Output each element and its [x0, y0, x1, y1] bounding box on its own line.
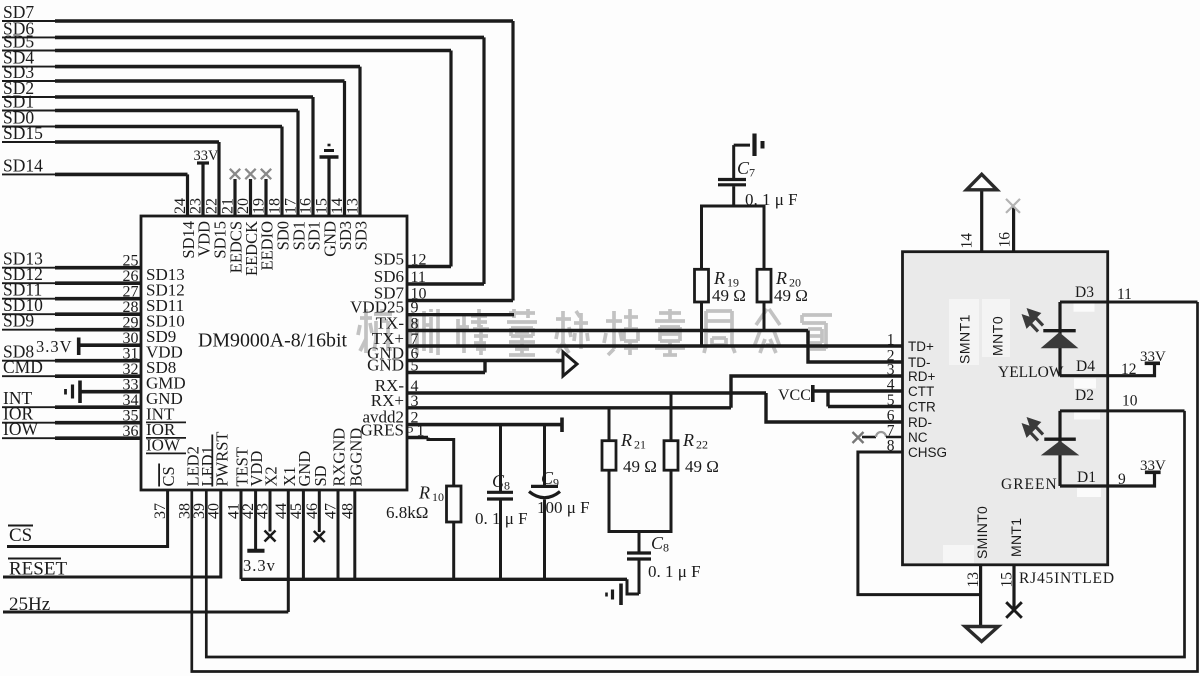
wire D3 row to pin11 [1060, 301, 1198, 304]
pin7 TX+ wire [407, 344, 903, 347]
wire R21-R22 bottom join [609, 470, 671, 531]
svg-text:SD5: SD5 [374, 250, 404, 269]
svg-text:IOW: IOW [3, 419, 38, 439]
svg-text:16: 16 [997, 232, 1014, 248]
pin13 ground arrow [979, 565, 982, 626]
svg-text:R: R [775, 268, 787, 288]
svg-text:36: 36 [123, 423, 139, 440]
wire SD0 horizontal [2, 126, 57, 128]
pin45 GND wire [302, 490, 305, 579]
wire gnd pin5 jog [483, 361, 486, 373]
pin16 no-connect [1012, 207, 1015, 252]
wire ground bus [241, 578, 627, 581]
svg-text:D3: D3 [1075, 284, 1094, 301]
svg-text:RD+: RD+ [908, 369, 935, 384]
resistor R21 [602, 441, 616, 471]
pin46 SD no-connect [318, 490, 321, 532]
white patch under D2 [1074, 411, 1100, 420]
wire SD2 drop to IC top pin [311, 97, 314, 217]
svg-text:BGGND: BGGND [346, 428, 365, 487]
svg-text:R: R [418, 483, 430, 503]
ground symbol right of C7 [734, 144, 750, 147]
svg-text:10: 10 [432, 490, 444, 504]
pin10 SD7 wire [407, 299, 513, 302]
pin1 GRES wire [407, 436, 428, 439]
wire RX- jog to RD- [766, 393, 903, 422]
svg-text:CTT: CTT [908, 384, 934, 399]
svg-text:26: 26 [123, 268, 139, 285]
pin25 SD13 wire [2, 267, 57, 269]
gnd arrow terminal (pins 5,6) [563, 352, 577, 376]
wire GRES to R10 [428, 438, 454, 487]
svg-text:33V: 33V [1140, 349, 1166, 365]
wire D1 row to 33V [1060, 473, 1155, 486]
svg-text:3: 3 [411, 393, 419, 410]
svg-text:35: 35 [123, 408, 139, 425]
no-connect X on pin19 [264, 179, 267, 217]
wire R19-R20 top join [702, 206, 765, 269]
RJ45 label SMNT1 bg [949, 299, 979, 365]
pin34 INT wire [2, 406, 57, 408]
pin41 TEST wire to ground bus [240, 490, 243, 579]
wire SD5 horizontal [2, 50, 57, 52]
capacitor C7 [732, 145, 735, 178]
wire VCC to CTT [813, 389, 903, 392]
pin31 SD8 wire [2, 360, 57, 362]
wire SD4 drop to IC top pin [358, 67, 361, 217]
svg-text:IOW: IOW [146, 436, 181, 455]
svg-text:9: 9 [411, 300, 419, 317]
svg-text:1: 1 [887, 332, 895, 349]
svg-text:5: 5 [887, 392, 895, 409]
pin48 BGGND wire [353, 490, 356, 579]
watermark text band [358, 309, 832, 355]
svg-text:16: 16 [298, 198, 315, 214]
svg-text:R: R [620, 430, 632, 450]
pin35 IOR wire [2, 422, 57, 424]
svg-text:RJ45INTLED: RJ45INTLED [1019, 570, 1115, 587]
svg-text:SD9: SD9 [3, 311, 34, 331]
svg-text:RD-: RD- [908, 415, 932, 430]
capacitor C8 (ac couple) [638, 532, 641, 552]
wire SD5 vertical to pin12 [449, 51, 452, 267]
svg-text:D2: D2 [1075, 387, 1094, 404]
pin40 PWRST wire [3, 490, 221, 577]
svg-text:28: 28 [123, 299, 139, 316]
svg-text:6.8kΩ: 6.8kΩ [386, 503, 428, 522]
svg-text:D1: D1 [1077, 469, 1096, 486]
wire R19 bottom to TX+ [700, 302, 703, 346]
svg-text:49 Ω: 49 Ω [712, 286, 746, 305]
svg-text:5: 5 [411, 358, 419, 375]
svg-text:0. 1 μ F: 0. 1 μ F [648, 562, 701, 581]
svg-text:CTR: CTR [908, 400, 936, 415]
svg-text:PWRST: PWRST [212, 431, 231, 486]
ground symbol above pin15 [327, 159, 330, 218]
svg-text:SD3: SD3 [352, 221, 371, 250]
wire R22 top [670, 393, 673, 441]
wire SD6 vertical to pin11 [482, 37, 485, 284]
svg-text:11: 11 [1117, 286, 1132, 303]
IC U1 DM9000A box [141, 216, 407, 490]
wire SD4 horizontal [2, 66, 57, 68]
resistor R19 [695, 269, 709, 302]
wire SD1 horizontal [2, 110, 57, 112]
svg-text:CMD: CMD [3, 357, 43, 377]
wire R21 top [608, 408, 611, 441]
svg-text:TD-: TD- [908, 355, 931, 370]
wire CHSG loop to pin13 [858, 452, 981, 595]
svg-text:18: 18 [267, 198, 284, 214]
wire SD3 drop to IC top pin [343, 81, 346, 217]
svg-text:32: 32 [123, 361, 139, 378]
svg-text:SD14: SD14 [3, 155, 43, 175]
svg-text:20: 20 [235, 198, 252, 214]
pin2 avdd2 wire [407, 423, 561, 426]
svg-text:11: 11 [411, 269, 426, 286]
wire D4 row to 33V [1060, 364, 1155, 376]
svg-text:14: 14 [329, 198, 346, 214]
pin32 CMD wire [2, 375, 57, 377]
svg-text:10: 10 [1122, 393, 1138, 410]
resistor R10 [447, 486, 462, 522]
wire R20 bottom to TX- [763, 302, 766, 331]
svg-text:NC: NC [908, 430, 928, 445]
svg-text:33: 33 [123, 377, 139, 394]
power 3.3v symbol at pin42 [247, 549, 264, 553]
svg-text:12: 12 [1121, 361, 1137, 378]
svg-text:30: 30 [123, 330, 139, 347]
wire SD15 horizontal [2, 141, 57, 143]
wire SD7 horizontal [2, 20, 57, 22]
pin39 LED1 wire loop to RJ45 D2 [206, 411, 1184, 657]
svg-text:3.3V: 3.3V [36, 337, 73, 356]
svg-text:23: 23 [188, 198, 205, 214]
svg-text:TD+: TD+ [908, 339, 934, 354]
svg-text:7: 7 [749, 166, 755, 180]
pin4 RX- wire [407, 391, 766, 394]
power 33V symbol (pin12) [1145, 361, 1160, 365]
svg-text:CHSG: CHSG [908, 445, 947, 460]
wire R10 bottom [452, 522, 455, 579]
no-connect X on RJ45 pin7 [862, 436, 876, 439]
svg-text:15: 15 [999, 572, 1016, 588]
svg-text:SD15: SD15 [3, 123, 43, 143]
svg-text:MNT0: MNT0 [990, 316, 1006, 356]
wire SD14 drop to IC top pin [186, 174, 189, 217]
svg-text:34: 34 [123, 392, 139, 409]
wire SD7 vertical to pin10 [511, 21, 514, 301]
svg-text:R: R [713, 268, 725, 288]
pin27 SD11 wire [2, 298, 57, 300]
wire SD14 horizontal [2, 173, 57, 175]
wire CTR jog to VCC [826, 391, 829, 407]
pin26 SD12 wire [2, 282, 57, 284]
svg-text:MNT1: MNT1 [1008, 518, 1024, 557]
svg-text:9: 9 [553, 476, 559, 490]
svg-text:49 Ω: 49 Ω [623, 457, 657, 476]
svg-text:24: 24 [172, 198, 189, 214]
pin3 RX+ wire [407, 406, 731, 409]
capacitor C8 (vdd filter) [499, 425, 502, 491]
LED D2 symbol [1058, 411, 1061, 486]
svg-text:8: 8 [887, 438, 895, 455]
pin38 LED2 wire loop to RJ45 D3 [192, 302, 1198, 672]
LED D3 symbol [1058, 302, 1061, 376]
wire SD1 drop to IC top pin [296, 111, 299, 218]
svg-text:31: 31 [123, 346, 139, 363]
capacitor C9 polarized [543, 425, 546, 485]
svg-text:R: R [682, 430, 694, 450]
svg-text:4: 4 [887, 377, 895, 394]
wire SD15 drop to IC top pin [217, 142, 220, 217]
wire D2 row to pin10 [1060, 409, 1185, 412]
svg-text:100 μ F: 100 μ F [537, 498, 590, 517]
svg-text:14: 14 [959, 233, 976, 249]
pin8 TX- wire [407, 329, 808, 332]
wire SD2 horizontal [2, 96, 57, 98]
pin14 antenna/power triangle [980, 190, 983, 251]
wire SD6 horizontal [2, 36, 57, 38]
pin29 SD9 wire [2, 329, 57, 331]
white patch under D3 [1074, 301, 1095, 312]
svg-text:VCC: VCC [778, 387, 811, 404]
pin6 GND wire [407, 359, 563, 362]
svg-text:12: 12 [411, 252, 427, 269]
white patch under D1 [1077, 488, 1101, 497]
pin42 VDD wire to 3.3v bar [254, 490, 257, 550]
svg-text:3.3v: 3.3v [243, 556, 276, 575]
wire TX- jog to TD- [808, 331, 903, 363]
svg-text:RESET: RESET [9, 559, 67, 580]
white patch under D4 [1074, 379, 1096, 389]
terminal T-bar on avdd25 [560, 418, 564, 433]
pin9 VDD25 wire [407, 313, 514, 316]
svg-text:27: 27 [123, 284, 139, 301]
svg-text:21: 21 [220, 198, 237, 214]
pin11 SD6 wire [407, 282, 484, 285]
resistor R20 [757, 269, 771, 302]
svg-text:49 Ω: 49 Ω [685, 457, 719, 476]
svg-text:33V: 33V [1140, 458, 1166, 474]
svg-text:CS: CS [159, 466, 178, 486]
pin43 X2 no-connect [269, 490, 272, 532]
svg-text:SD: SD [311, 465, 330, 486]
pin47 RXGND wire [337, 490, 340, 579]
svg-text:22: 22 [204, 198, 221, 214]
ground symbol at pin33 [81, 390, 142, 394]
svg-text:8: 8 [504, 479, 510, 493]
ground symbol at bus end [627, 579, 639, 594]
svg-text:25: 25 [123, 253, 139, 270]
svg-text:DM9000A-8/16bit: DM9000A-8/16bit [198, 330, 347, 352]
wire SD3 horizontal [2, 80, 57, 82]
no-connect X on pin20 [249, 179, 252, 217]
svg-text:29: 29 [123, 315, 139, 332]
power 33V symbol (pin9) [1145, 470, 1161, 474]
svg-text:13: 13 [345, 198, 362, 214]
no-connect X on pin21 [233, 179, 236, 217]
pin44 X1 wire to 25Hz [287, 490, 290, 612]
svg-text:49 Ω: 49 Ω [774, 286, 808, 305]
svg-text:8: 8 [411, 316, 419, 333]
svg-text:GRES: GRES [361, 421, 404, 440]
pin5 GND wire [407, 371, 485, 374]
pin12 SD5 wire [407, 265, 451, 268]
svg-text:13: 13 [965, 572, 982, 588]
wire 25Hz horizontal [3, 611, 288, 614]
pin36 IOW wire [2, 437, 57, 439]
svg-text:22: 22 [696, 438, 708, 452]
svg-text:21: 21 [634, 438, 646, 452]
svg-text:CS: CS [9, 525, 32, 546]
svg-text:SMNT1: SMNT1 [957, 314, 973, 364]
RJ45 connector body [903, 252, 1108, 565]
wire RX+ jog to RD+ [731, 376, 903, 408]
RJ45 label MNT0 bg [982, 299, 1010, 357]
wire SD0 drop to IC top pin [280, 127, 283, 218]
svg-text:GREEN: GREEN [1001, 476, 1058, 493]
svg-text:YELLOW: YELLOW [998, 364, 1064, 381]
svg-text:GND: GND [367, 356, 404, 375]
svg-text:19: 19 [251, 198, 268, 214]
pin37 CS wire [7, 490, 168, 547]
svg-text:15: 15 [314, 198, 331, 214]
resistor R22 [664, 441, 678, 471]
svg-text:9: 9 [1118, 471, 1126, 488]
svg-text:0. 1 μ F: 0. 1 μ F [475, 509, 528, 528]
svg-text:D4: D4 [1076, 358, 1095, 375]
svg-text:8: 8 [663, 541, 669, 555]
pin28 SD10 wire [2, 313, 57, 315]
pin15 no-connect [1012, 565, 1015, 609]
RJ45 bottom-left white patch [943, 545, 974, 563]
svg-text:SMINT0: SMINT0 [974, 506, 990, 559]
wire avdd25 node line [407, 423, 561, 426]
svg-text:X2: X2 [262, 466, 281, 486]
